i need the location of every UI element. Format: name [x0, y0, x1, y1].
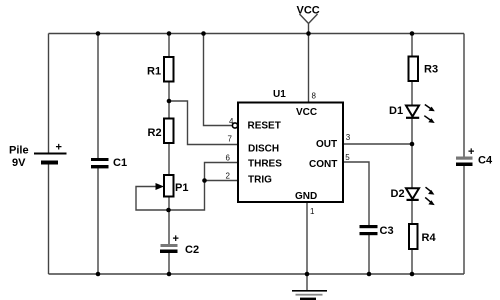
wire threshold pin6	[205, 163, 239, 181]
wire C3 to bottom	[368, 235, 370, 274]
wire R3 top	[411, 34, 413, 56]
svg-text:C3: C3	[380, 225, 394, 237]
svg-text:DISCH: DISCH	[248, 144, 279, 155]
svg-text:VCC: VCC	[296, 107, 317, 118]
svg-text:5: 5	[345, 153, 350, 162]
capacitor C1	[91, 157, 127, 169]
wire R2-P1	[168, 144, 170, 175]
svg-text:OUT: OUT	[316, 139, 337, 150]
wire D1-node	[411, 119, 413, 145]
svg-text:8: 8	[312, 92, 317, 101]
svg-text:D1: D1	[389, 105, 403, 117]
svg-text:+: +	[56, 142, 62, 154]
potentiometer P1	[156, 175, 189, 197]
node bottom C1	[96, 272, 101, 277]
svg-text:9V: 9V	[12, 157, 26, 169]
wire R3-D1	[411, 82, 413, 105]
node top R1	[167, 31, 172, 36]
node feedback junction	[166, 208, 171, 213]
resistor R1	[147, 57, 174, 82]
wire right rail upper	[463, 34, 465, 157]
svg-text:3: 3	[346, 133, 351, 142]
wire top rail	[49, 33, 465, 35]
resistor R4	[409, 224, 436, 249]
node top R3	[410, 31, 415, 36]
VCC symbol	[297, 5, 320, 34]
op-amp U1 555 timer box	[238, 89, 343, 202]
wire D2-R4	[411, 201, 413, 224]
wire P1-C2	[168, 198, 170, 245]
svg-text:C2: C2	[185, 244, 199, 256]
wire trig junction to feedback	[136, 181, 205, 211]
resistor R2	[148, 119, 174, 144]
wire reset to pin4	[204, 34, 233, 126]
battery Pile 9V	[9, 142, 67, 170]
svg-text:RESET: RESET	[248, 121, 281, 132]
node R1-R2 junction	[167, 99, 172, 104]
svg-text:2: 2	[226, 172, 231, 181]
wire C1 branch lower	[97, 168, 99, 274]
capacitor C2	[160, 233, 199, 256]
wire left rail upper	[48, 34, 50, 153]
svg-text:D2: D2	[391, 188, 405, 200]
svg-text:Pile: Pile	[9, 145, 29, 157]
pin 4 reset bubble	[232, 123, 237, 128]
node OUT junction	[410, 142, 415, 147]
wire R4-bottom	[411, 250, 413, 275]
wire bottom rail	[49, 273, 465, 275]
capacitor C3	[360, 225, 394, 237]
node bottom C3	[367, 272, 372, 277]
svg-text:TRIG: TRIG	[248, 175, 272, 186]
node top C1	[96, 31, 101, 36]
wire C1 branch upper	[97, 34, 99, 159]
capacitor C4	[456, 146, 493, 167]
ground	[292, 290, 327, 300]
wire pin8 to VCC rail	[308, 34, 310, 103]
node bottom C2	[167, 272, 172, 277]
svg-text:R3: R3	[424, 64, 438, 76]
wire C2-bottom	[168, 253, 170, 274]
svg-text:U1: U1	[273, 89, 286, 100]
node top reset	[201, 31, 206, 36]
svg-text:THRES: THRES	[248, 159, 282, 170]
svg-text:C1: C1	[113, 157, 127, 169]
svg-text:6: 6	[226, 154, 231, 163]
svg-text:C4: C4	[478, 155, 493, 167]
node bottom gnd	[305, 272, 310, 277]
wire pin1 ground stem	[306, 203, 308, 291]
svg-text:CONT: CONT	[309, 159, 337, 170]
wire R1-R2	[168, 82, 170, 118]
wire right rail lower	[463, 166, 465, 274]
svg-text:P1: P1	[175, 182, 188, 194]
svg-text:+: +	[468, 146, 474, 158]
wire discharge to pin7	[169, 101, 238, 145]
LED D1	[389, 105, 435, 124]
svg-text:VCC: VCC	[297, 5, 320, 17]
node top VCC	[306, 31, 311, 36]
node trig junction	[202, 178, 207, 183]
svg-text:4: 4	[229, 117, 234, 126]
wire pin3 OUT	[344, 143, 413, 145]
svg-text:GND: GND	[295, 191, 317, 202]
svg-text:1: 1	[310, 207, 315, 216]
svg-text:R4: R4	[422, 232, 437, 244]
wire R1 top	[168, 34, 170, 57]
wire left rail lower	[48, 165, 50, 275]
svg-text:R1: R1	[147, 66, 161, 78]
wire trigger pin2	[205, 180, 239, 182]
node bottom R4	[410, 272, 415, 277]
svg-text:R2: R2	[148, 127, 162, 139]
wire pin5 CONT to C3	[344, 162, 370, 225]
wire node-D2	[411, 144, 413, 188]
resistor R3	[409, 57, 439, 82]
svg-text:7: 7	[228, 135, 233, 144]
LED D2	[391, 187, 435, 205]
svg-text:+: +	[173, 233, 179, 245]
